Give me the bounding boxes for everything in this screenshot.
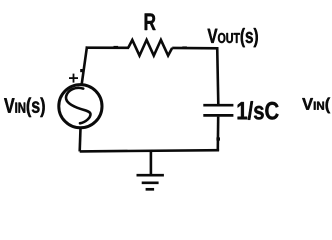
ground bar 3: [146, 188, 155, 191]
capacitor top plate: [203, 104, 233, 107]
ground bar 2: [142, 181, 159, 184]
wire right vertical lower: [217, 117, 220, 151]
ground bar 1: [137, 174, 164, 177]
wire top-left corner vertical: [82, 46, 87, 84]
node tick right wire: [216, 137, 220, 140]
wire bottom horizontal: [80, 150, 219, 151]
label VIN(s) left: [4, 97, 45, 117]
wire top-right horizontal: [172, 47, 218, 50]
label R: [145, 13, 156, 30]
capacitor bottom plate: [203, 114, 233, 117]
wire right vertical upper: [217, 47, 218, 104]
label 1/sC: [238, 101, 279, 120]
node tick top wire A: [114, 46, 119, 48]
source circle: [59, 85, 102, 128]
ground stub wire: [150, 151, 153, 175]
label VIN( right: [302, 98, 330, 114]
node tick top wire B: [182, 46, 187, 48]
wire left vertical lower: [78, 128, 81, 151]
resistor R zigzag: [128, 40, 172, 56]
node tick left wire: [80, 69, 84, 72]
wire top-left horizontal: [86, 46, 129, 49]
label VOUT(s): [208, 28, 258, 47]
source sine curve: [66, 88, 91, 123]
source plus sign: [69, 74, 78, 83]
